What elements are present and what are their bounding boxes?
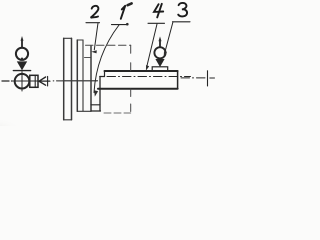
leader 3 arrowhead <box>164 51 167 57</box>
indicator I1 dial body circle <box>16 48 28 60</box>
leader line 3 <box>165 22 173 53</box>
faceplate disc right edge <box>71 38 73 120</box>
scanner shadow bottom-left <box>0 0 1 1</box>
label 1 shelf <box>112 24 128 26</box>
label 3 shelf <box>173 21 191 23</box>
indicator I2 contact cone <box>155 59 164 67</box>
mandrel right end face <box>177 71 179 89</box>
hub top edge <box>77 39 83 41</box>
paper background <box>0 0 226 126</box>
force arrow shaft <box>39 80 50 82</box>
force arrow tick <box>47 76 49 86</box>
indicator I1 contact cone <box>17 61 27 70</box>
hidden workpiece right edge upper (dashed) <box>130 45 132 71</box>
stray scan mark <box>128 3 132 5</box>
main axis centerline through gauge ball <box>13 80 50 82</box>
indicator I2 stem arrow <box>159 36 162 41</box>
nut block right edge <box>99 77 101 112</box>
leader line 2 <box>94 23 98 50</box>
indicator I1 rest bar <box>13 70 30 72</box>
digit 2 <box>91 6 99 18</box>
main axis centerline inside mandrel (dash-dot) <box>107 76 191 78</box>
label 4 shelf <box>148 22 165 24</box>
leader 2 arrowhead <box>91 50 97 53</box>
ball B1 vertical crosshair <box>21 72 23 91</box>
hidden workpiece bottom edge (dashed) <box>104 112 131 114</box>
digit 1 <box>121 6 125 19</box>
main axis centerline dash before faceplate <box>53 80 62 82</box>
block W1 body <box>30 75 38 87</box>
centerline final dash <box>210 77 215 79</box>
leader 1 arrowhead <box>94 90 98 96</box>
hub left edge <box>76 40 78 111</box>
label 1 shelf dot <box>126 23 129 26</box>
faceplate disc left edge <box>63 38 65 120</box>
digit 4 <box>154 4 163 18</box>
hub step vertical <box>82 40 84 111</box>
mandrel center-hole wall <box>104 71 106 77</box>
mandrel center-hole shelf <box>100 76 105 78</box>
faceplate disc top edge <box>64 37 72 39</box>
faceplate disc bottom edge <box>64 119 72 121</box>
block W1 inner line <box>34 75 36 87</box>
leader line 4 <box>147 24 157 67</box>
indicator I1 stem arrow <box>21 36 24 41</box>
hub right edge <box>90 46 92 111</box>
indicator I2 dial body circle <box>154 47 165 58</box>
indicator I2 rest block <box>152 67 168 71</box>
ball B1 circle <box>15 74 30 89</box>
mandrel top edge <box>105 70 178 72</box>
hub boss shoulder <box>85 57 92 59</box>
nut block bottom edge <box>91 104 100 106</box>
main axis centerline across faceplate and hub <box>63 80 98 82</box>
force arrow head <box>39 77 46 85</box>
digit 3 <box>178 3 187 16</box>
label 2 shelf <box>86 22 100 24</box>
hub bottom edge <box>77 110 91 112</box>
leader line 1 <box>94 25 119 93</box>
main axis centerline left dash <box>2 80 12 82</box>
indicator I1 pivot dot <box>21 58 23 60</box>
hub lower flange bottom <box>91 110 101 112</box>
hidden workpiece right edge lower (dashed) <box>130 89 132 113</box>
leader 4 arrowhead <box>146 65 149 71</box>
hidden workpiece top edge (dashed) <box>86 44 131 46</box>
indicator I2 stem <box>159 40 161 47</box>
indicator I1 stem <box>21 40 23 48</box>
mandrel bottom edge <box>98 88 178 90</box>
main axis centerline right of mandrel (dash-dot) <box>181 77 205 79</box>
centerline end tick <box>207 71 209 86</box>
